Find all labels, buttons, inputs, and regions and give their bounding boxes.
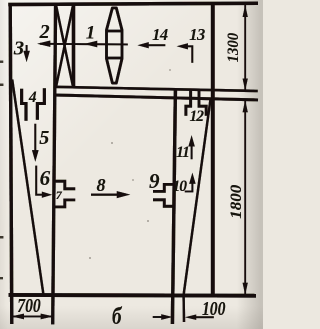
dim 100 arrow right-pointing [161,314,172,319]
fan blade outline [107,8,123,83]
svg-text:1300: 1300 [225,33,242,63]
arrowhead 14 [138,42,149,48]
svg-text:1800: 1800 [228,185,245,219]
arrow 5 shaft [34,124,36,152]
page gutter speck 3 [0,236,3,239]
dim 1300 arrow down [243,79,248,91]
page gutter speck 4 [0,277,3,279]
dim 100 right tail [194,316,214,318]
svg-text:4: 4 [28,89,37,106]
svg-text:2: 2 [39,21,50,43]
inner left wall [53,4,56,324]
damper right edge [72,4,75,88]
svg-text:13: 13 [189,25,205,44]
arrowhead 6 [42,192,52,198]
page gutter speck 1 [0,61,3,63]
collector 12 right step [199,89,206,115]
svg-text:12: 12 [190,108,205,125]
svg-text:9: 9 [149,169,160,193]
svg-text:10: 10 [172,178,187,195]
svg-text:7: 7 [56,188,63,202]
arrowhead 13 [177,43,188,49]
ceiling top line [54,87,258,91]
damper diagonal 2 [56,6,73,86]
nozzle 9 top step [153,184,175,191]
dim 1800 arrow up [243,100,248,112]
top wall [8,3,258,4]
nozzle 7 bottom step [54,200,75,207]
dust speck e [169,69,171,71]
dust speck a [111,142,113,144]
svg-text:6: 6 [40,166,51,190]
svg-text:б: б [112,304,122,329]
dim line 1800 [244,100,246,294]
fan chord bottom [107,57,123,60]
svg-text:5: 5 [39,127,49,149]
svg-text:700: 700 [17,295,41,317]
arrowhead 5 [32,150,39,162]
damper diagonal 1 [56,6,73,86]
nozzle 4 left step [22,89,26,121]
dim line 700 [12,315,54,317]
bottom wall [9,293,257,298]
dim 1300 arrow up [243,5,248,17]
dim line 1300 [244,5,246,91]
dust speck d [89,257,91,259]
svg-text:100: 100 [202,299,226,320]
svg-text:1: 1 [86,22,96,43]
left slant baffle [12,80,43,296]
arrow 10 shaft [185,183,193,191]
right wall [211,4,215,298]
arrowhead 11 [188,135,194,146]
collector 12 left step [186,89,191,115]
page gutter speck 2 [0,84,3,87]
right slant baffle [184,99,211,323]
arrow 6 shaft [36,166,43,195]
nozzle 7 top step [54,181,75,189]
arrow 11 shaft [191,146,193,159]
arrowhead 10 [189,173,195,184]
arrowhead 8 [117,191,130,198]
nozzle 4 right step [37,88,44,120]
dim 100 arrow left-pointing [185,315,196,320]
dust speck b [147,220,149,222]
arrowhead 3 [23,51,29,62]
svg-text:3: 3 [13,38,24,60]
nozzle 9 bottom step [153,200,175,207]
dim 700 arrow left [12,314,25,320]
arrow 14 shaft [146,44,165,46]
ceiling bottom line [55,95,258,100]
svg-text:14: 14 [152,25,168,44]
arrow 8 shaft [91,194,120,196]
dim 700 arrow right [41,314,54,320]
arrow 13 shaft [186,46,192,63]
svg-text:11: 11 [176,144,189,161]
air axis line [40,43,128,46]
fan chord top [107,30,123,33]
arrowhead 2 [37,41,50,47]
arrowhead 1 [84,41,97,47]
svg-text:8: 8 [97,175,106,195]
inner right wall [172,90,175,324]
arrow 3 shaft [26,45,28,53]
dust speck c [132,179,134,181]
dim 100 left tail [153,316,164,318]
dim 1800 arrow down [243,283,248,295]
left wall [10,3,12,324]
